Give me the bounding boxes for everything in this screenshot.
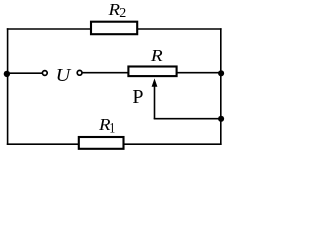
- svg-text:P: P: [132, 86, 143, 108]
- svg-text:1: 1: [109, 120, 115, 136]
- resistor R2: [91, 22, 137, 35]
- node: junction dot right top (middle branch to right side): [218, 70, 224, 76]
- terminal circle left of U: [42, 71, 47, 76]
- wiper arrow of potentiometer: [154, 86, 156, 120]
- node: junction dot right bottom (wiper to right side): [218, 116, 224, 122]
- node: junction dot left (middle branch to left side): [4, 71, 10, 77]
- wire: wiper horizontal segment: [154, 118, 221, 120]
- wire: left side of outer loop: [7, 28, 9, 145]
- resistor R1: [79, 137, 124, 149]
- resistor R (potentiometer): [128, 67, 176, 77]
- wire: right side of outer loop: [220, 28, 222, 145]
- terminal circle right of U: [77, 70, 82, 75]
- wire: middle branch right segment: [82, 72, 220, 74]
- svg-text:2: 2: [119, 6, 126, 21]
- svg-text:U: U: [56, 65, 72, 85]
- svg-text:R: R: [150, 46, 164, 65]
- wire: middle branch left segment: [8, 72, 43, 74]
- wire: top side of outer loop: [7, 28, 222, 30]
- wire: bottom side of outer loop: [7, 143, 222, 145]
